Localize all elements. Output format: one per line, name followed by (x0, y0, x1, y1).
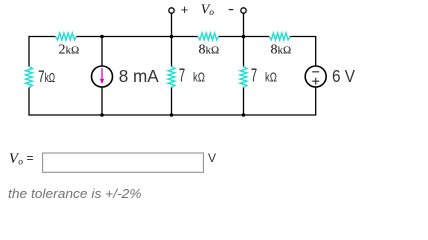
terminal b (−) open circle (241, 8, 246, 13)
wire right branch upper (315, 36, 317, 66)
resistor R3 8kΩ (269, 33, 290, 40)
svg-text:8kΩ: 8kΩ (271, 43, 292, 58)
node A top junction 1 (100, 35, 104, 39)
svg-text:V: V (208, 151, 216, 165)
wire left branch upper (28, 36, 30, 67)
wire terminal b stub (243, 13, 245, 36)
svg-text:o: o (209, 8, 214, 18)
node B top junction 2 (170, 35, 174, 39)
node D bottom junction 1 (100, 113, 104, 117)
wire top rail right segment (290, 36, 316, 38)
svg-text:+: + (181, 2, 189, 17)
label minus polarity (229, 9, 234, 11)
wire top rail right-middle segment (219, 36, 269, 38)
svg-text:the tolerance is +/-2%: the tolerance is +/-2% (8, 186, 142, 201)
resistor R2 8kΩ (198, 33, 219, 40)
current source I1 8 mA (92, 66, 113, 87)
svg-text:7: 7 (179, 66, 185, 86)
svg-text:kΩ: kΩ (265, 70, 277, 85)
node E bottom junction 2 (170, 113, 174, 117)
answer input box (43, 153, 204, 172)
resistor R1 2kΩ (56, 33, 77, 40)
voltage source minus sign (312, 71, 319, 73)
wire middle branch 1 lower (171, 88, 173, 116)
svg-text:2kΩ: 2kΩ (59, 43, 80, 58)
node C top junction 3 (242, 35, 246, 39)
resistor R6 7kΩ (240, 67, 247, 88)
wire top rail middle segment (77, 36, 198, 38)
node F bottom junction 3 (242, 113, 246, 117)
svg-text:8 mA: 8 mA (119, 66, 159, 86)
terminal a (+) open circle (169, 8, 174, 13)
svg-text:o: o (18, 158, 23, 168)
svg-text:8kΩ: 8kΩ (199, 43, 220, 58)
wire terminal a stub (171, 13, 173, 36)
wire top rail left segment (29, 36, 56, 38)
wire current-source branch upper (101, 37, 103, 67)
svg-text:7: 7 (38, 67, 44, 86)
wire left branch lower (28, 88, 30, 116)
svg-text:kΩ: kΩ (193, 70, 205, 85)
resistor R5 7kΩ (168, 67, 175, 88)
wire middle branch 2 lower (243, 88, 245, 116)
resistor R4 7kΩ (26, 67, 33, 88)
wire current-source branch lower (101, 87, 103, 115)
wire right branch lower (315, 87, 317, 116)
wire middle branch 1 upper (171, 37, 173, 67)
svg-text:kΩ: kΩ (45, 71, 55, 85)
voltage source V1 6 V (305, 66, 326, 87)
wire bottom rail (29, 114, 316, 116)
svg-text:=: = (27, 151, 34, 165)
svg-text:7: 7 (251, 66, 257, 86)
current source arrow (101, 68, 103, 82)
wire middle branch 2 upper (243, 37, 245, 67)
svg-text:6 V: 6 V (332, 66, 355, 86)
voltage source plus sign (312, 80, 319, 82)
